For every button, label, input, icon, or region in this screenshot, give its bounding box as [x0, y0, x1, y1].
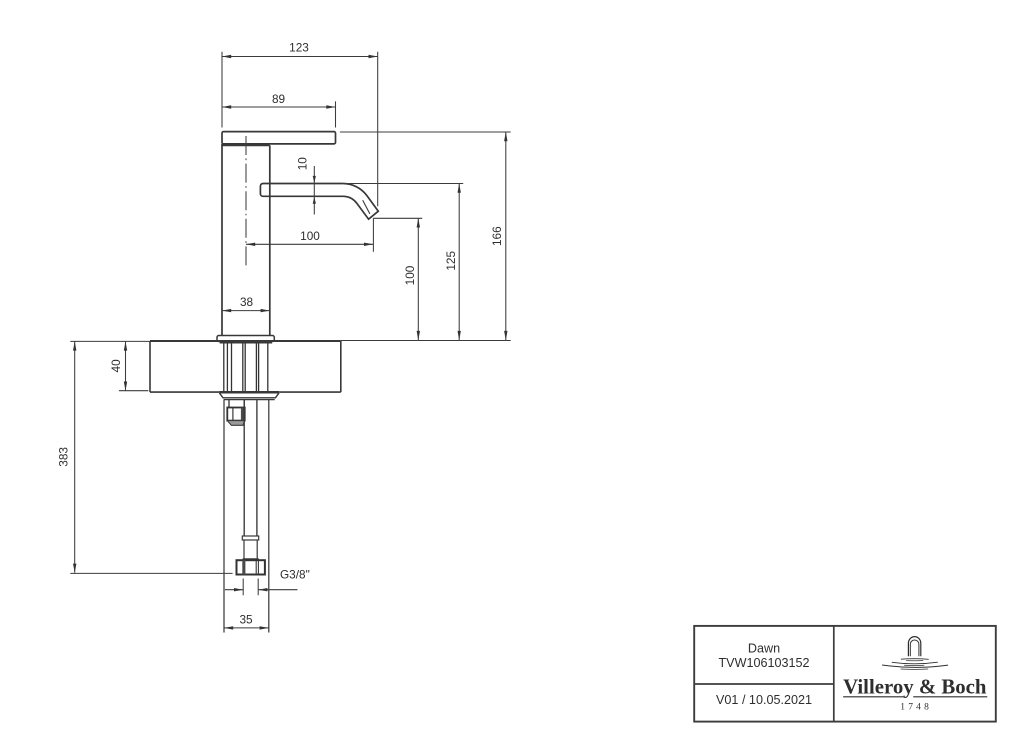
hex nut on stud [227, 408, 244, 426]
arrow 125 top [458, 184, 461, 193]
faucet body column [222, 144, 270, 336]
nut facet line [232, 408, 234, 421]
nut chamfer [227, 421, 244, 426]
arrow 125 bottom [458, 331, 461, 340]
washer top bar [219, 391, 279, 394]
svg-text:35: 35 [239, 613, 253, 627]
logo arch inner [910, 640, 919, 656]
dim 35 line [224, 627, 269, 629]
countertop left edge [149, 341, 151, 392]
spout tip inner line [363, 200, 370, 214]
washer chamfered sides [219, 393, 279, 398]
ext countertop level right [341, 340, 511, 342]
washer bottom lip [224, 399, 275, 401]
arrow 10 top [313, 176, 316, 183]
logo underline [843, 696, 987, 698]
ext 383 bottom [70, 572, 232, 574]
nut shaded facet [241, 408, 245, 421]
arrow 100v bottom [417, 331, 420, 340]
svg-text:100: 100 [403, 265, 417, 285]
svg-text:TVW106103152: TVW106103152 [718, 656, 809, 670]
logo ripple 2 [892, 662, 938, 664]
dim 125 vertical line [458, 184, 460, 341]
svg-text:123: 123 [289, 41, 309, 55]
svg-text:Villeroy & Boch: Villeroy & Boch [843, 675, 987, 698]
dim 38 line [222, 310, 270, 312]
arrow 38 left [222, 309, 231, 312]
title block frame [694, 626, 996, 722]
shank tube lines [224, 343, 268, 391]
title block horizontal divider [694, 683, 834, 685]
flange base line [220, 341, 272, 343]
below-counter tailpiece outline lines (35 extension) [224, 400, 269, 633]
arrow 383 top [73, 341, 76, 350]
dim 100 vertical line [417, 218, 419, 340]
nut body [227, 408, 244, 421]
arrow 100v top [417, 218, 420, 227]
hose walls [244, 400, 257, 536]
connector cap line [243, 558, 259, 560]
ext from spout tip bottom [373, 217, 422, 219]
handle lever plate [222, 132, 336, 144]
flexible hose [242, 400, 258, 559]
countertop [150, 341, 341, 392]
arrows [73, 55, 508, 630]
arrow G38 left [234, 588, 243, 591]
arrow 123 left [222, 55, 231, 58]
connector facet lines [256, 560, 258, 574]
hose ferrule collar [242, 536, 258, 540]
svg-text:G3/8": G3/8" [280, 568, 310, 582]
Villeroy & Boch logo [882, 637, 948, 670]
arrow 166 bottom [504, 331, 507, 340]
spout tube [260, 184, 378, 220]
ext spout top [341, 183, 463, 185]
arrow 166 top [504, 132, 507, 141]
dim 89 lines [222, 101, 336, 127]
ext handle top [340, 131, 511, 133]
arrow 40 top [124, 341, 127, 350]
svg-text:Dawn: Dawn [748, 641, 780, 655]
svg-text:40: 40 [109, 359, 123, 373]
dimension texts [57, 41, 504, 627]
svg-text:100: 100 [300, 229, 320, 243]
title block vertical divider [833, 626, 835, 722]
arrow 89 right [326, 105, 335, 108]
svg-text:383: 383 [57, 447, 71, 467]
logo ripple 1 [901, 658, 929, 661]
logo ripple 3 [882, 665, 948, 667]
dim 166 vertical line [505, 132, 507, 340]
hose end tube [244, 540, 257, 559]
svg-text:10: 10 [295, 157, 309, 171]
G3/8 dim tails [225, 589, 298, 591]
svg-text:V01 / 10.05.2021: V01 / 10.05.2021 [716, 693, 812, 707]
svg-text:1748: 1748 [900, 702, 932, 712]
lower washer below countertop [219, 392, 279, 399]
dim 40 lines [70, 341, 150, 390]
arrow 35 right [260, 626, 269, 629]
dim 10 lines [313, 166, 315, 215]
threaded stud [229, 400, 244, 408]
dim 383 line [74, 341, 76, 572]
logo arch outer [908, 637, 920, 657]
connector shaded facet [242, 560, 245, 574]
G3/8 connector nut [237, 560, 265, 574]
countertop top edge [150, 340, 341, 342]
shank through countertop [224, 343, 268, 391]
countertop right edge [340, 341, 342, 392]
svg-text:125: 125 [444, 251, 458, 271]
arrow 10 bottom [313, 197, 316, 204]
svg-text:38: 38 [240, 295, 254, 309]
tailpiece silhouette / dim 35 extension lines [224, 400, 269, 633]
arrow 383 bottom [73, 564, 76, 573]
centerline (dash-dot) [245, 136, 247, 269]
arrow 40 bottom [124, 382, 127, 391]
mounting flange above countertop [217, 336, 274, 342]
arrow G38 right [258, 588, 267, 591]
arrow 123 right [369, 55, 378, 58]
arrow 100h right [364, 243, 373, 246]
arrow 35 left [224, 626, 233, 629]
countertop bottom edge [150, 391, 341, 393]
arrow 38 right [261, 309, 270, 312]
G3/8 ext ticks [243, 579, 258, 596]
svg-text:166: 166 [490, 226, 504, 246]
svg-text:89: 89 [272, 92, 285, 106]
connector nut body [237, 560, 265, 574]
arrow 100h left [246, 243, 255, 246]
arrow 89 left [222, 105, 231, 108]
dim 100 horizontal lines [246, 218, 373, 251]
dim 123 lines [222, 52, 378, 207]
